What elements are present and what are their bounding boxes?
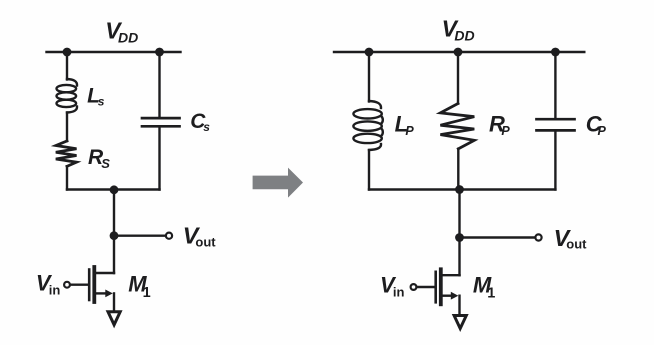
svg-text:out: out — [195, 234, 216, 249]
svg-text:P: P — [501, 124, 510, 138]
svg-text:DD: DD — [454, 27, 474, 43]
svg-text:1: 1 — [143, 285, 151, 301]
svg-text:1: 1 — [487, 286, 495, 302]
svg-text:P: P — [405, 124, 414, 138]
svg-text:in: in — [49, 282, 61, 297]
svg-text:P: P — [598, 124, 607, 138]
svg-text:s: s — [98, 95, 105, 109]
svg-text:out: out — [566, 237, 587, 252]
svg-text:DD: DD — [118, 29, 138, 45]
svg-text:s: s — [203, 120, 210, 134]
svg-text:in: in — [393, 285, 405, 300]
svg-text:S: S — [101, 156, 110, 171]
